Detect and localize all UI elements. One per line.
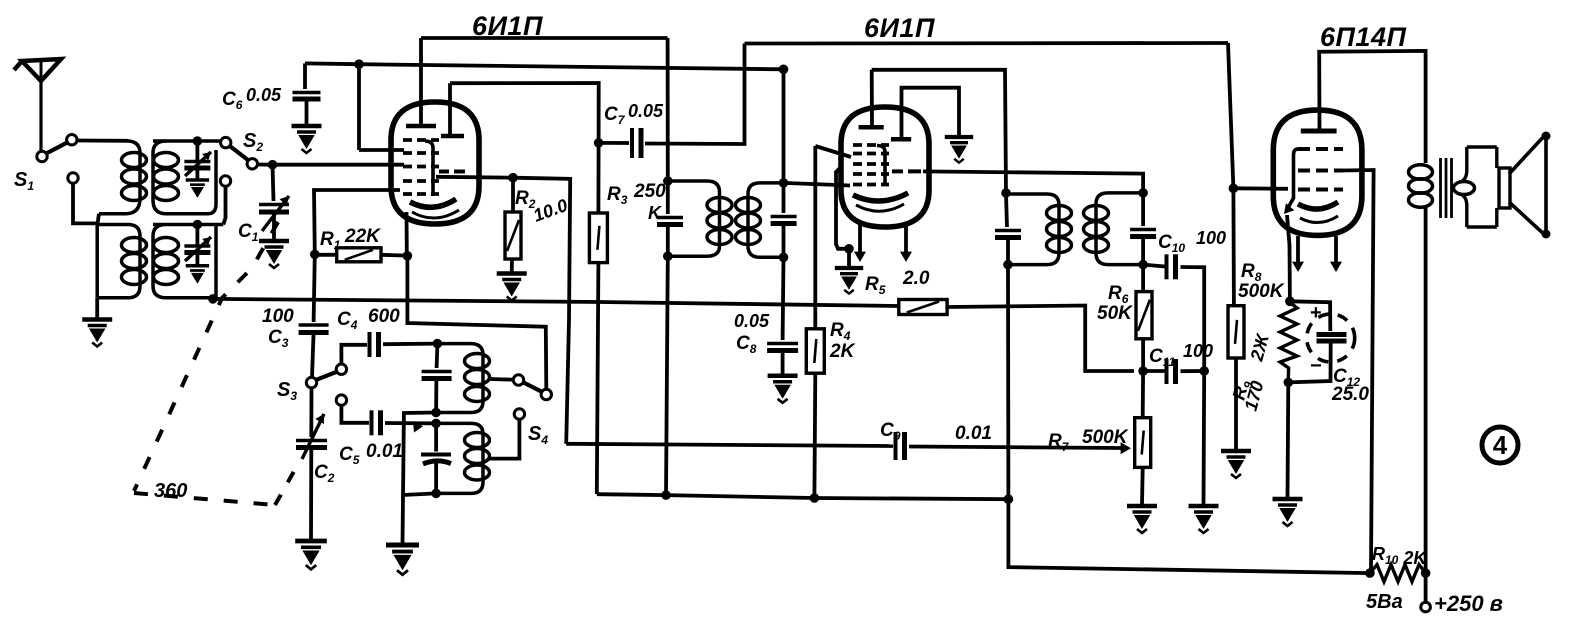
junction AVC bus end: [1004, 494, 1014, 504]
dashed gang to C2: [275, 466, 297, 505]
V1 cathode arc: [410, 199, 456, 207]
coil L3: [97, 223, 140, 297]
tap L5 to S4: [490, 377, 519, 382]
wire V2 triode plate to T3 secondary: [923, 171, 1143, 193]
wire rail to T2 secondary: [782, 69, 786, 183]
svg-text:6И1П: 6И1П: [864, 13, 935, 43]
svg-text:2.0: 2.0: [902, 268, 930, 289]
junction R6 bottom: [1138, 366, 1148, 376]
switch S3: [306, 377, 316, 387]
wire C10 to C11 column: [1181, 267, 1205, 369]
junction C11 right: [1199, 366, 1209, 376]
capacitor C5: [341, 405, 369, 423]
wire V2 plate to T3: [872, 70, 1006, 193]
capacitor C3: [299, 325, 329, 333]
dashed gang bottom: [134, 493, 275, 505]
capacitor T3 secondary: [1141, 193, 1145, 226]
resistor R2: [511, 178, 515, 212]
node A junction: [268, 160, 278, 170]
ground C10 C11: [1189, 506, 1219, 533]
wire osc bottom to ground column: [403, 493, 437, 495]
junction T2 primary bottom: [663, 251, 673, 261]
V3 heater leads: [1296, 236, 1300, 266]
V2 cathode lead and ground: [836, 166, 849, 249]
svg-text:600: 600: [368, 306, 400, 327]
V1 grid dashes: [403, 138, 439, 142]
capacitor C9: [896, 432, 905, 460]
wire L1 to L3: [97, 214, 99, 225]
tap L6 to S4: [490, 420, 520, 459]
wire R8 to V3 grid: [1233, 186, 1288, 190]
terminal B plus: [1421, 602, 1431, 612]
switch S4: [513, 375, 523, 385]
junction V3 cathode node: [1285, 297, 1295, 307]
capacitor C11: [1143, 369, 1165, 373]
junction T3 primary top: [1001, 188, 1011, 198]
wire rail to T2 primary: [666, 38, 670, 181]
junction R10 left: [1365, 568, 1375, 578]
svg-text:0.05: 0.05: [246, 85, 282, 105]
svg-text:K: K: [648, 203, 663, 223]
junction bus R4: [810, 493, 820, 503]
wire T2 to V2 diode: [784, 183, 851, 186]
svg-text:50K: 50K: [1097, 303, 1133, 324]
junction osc mid upper: [431, 408, 441, 418]
junction R1 left: [310, 250, 320, 260]
wire V1 to S4: [407, 256, 546, 389]
wire to B plus terminal: [1424, 573, 1428, 602]
wire AVC bus: [597, 494, 1009, 499]
junction T3 secondary top: [1138, 188, 1148, 198]
wire rail C7 to R8: [745, 41, 1229, 45]
junction R1 right: [403, 251, 413, 261]
capacitor T3 primary: [1006, 194, 1007, 227]
svg-text:25.0: 25.0: [1331, 384, 1369, 405]
terminal circle L4 to gang: [220, 176, 230, 186]
variable capacitor C1: [273, 165, 274, 201]
wire C11 to ground: [1202, 371, 1206, 505]
junction osc bottom: [431, 489, 441, 499]
junction L4 bottom: [208, 294, 218, 304]
ground R2: [497, 274, 527, 301]
junction bus T2: [661, 490, 671, 500]
resistor R6: [1141, 265, 1145, 292]
switch S2: [221, 137, 231, 147]
resistor R4: [813, 146, 817, 329]
switch S1: [37, 151, 47, 161]
antenna: [14, 59, 61, 152]
svg-text:100: 100: [1183, 341, 1213, 361]
dashed tuning gang line: [134, 222, 278, 491]
junction L2 top: [193, 136, 203, 146]
wire R4 to V2 grid: [815, 146, 851, 157]
junction R2 top: [508, 173, 518, 183]
electrolytic capacitor C12: [1290, 301, 1330, 331]
wire S1 to L1: [77, 139, 128, 143]
junction T2 secondary top: [779, 178, 789, 188]
wire V1 screen to C7: [450, 83, 599, 143]
ground R8: [1221, 451, 1251, 478]
resistor R1: [337, 248, 381, 262]
wire S1 to L3: [73, 184, 97, 224]
junction T2 secondary bottom: [779, 252, 789, 262]
V3 plate and lead: [1301, 129, 1337, 134]
V2 heater leads: [858, 222, 862, 256]
output transformer secondary and speaker frame: [1460, 147, 1497, 227]
V1 cathode lead down: [405, 212, 409, 253]
junction R9 bottom: [1284, 378, 1294, 388]
V2 screen lead to ground: [891, 137, 911, 142]
junction T2 primary top: [663, 176, 673, 186]
svg-text:360: 360: [154, 480, 187, 502]
capacitor C10: [1143, 265, 1165, 267]
svg-text:6П14П: 6П14П: [1320, 22, 1406, 52]
resistor R7: [1141, 371, 1145, 418]
junction R10 right: [1421, 568, 1431, 578]
svg-text:4: 4: [1493, 430, 1508, 460]
IF transformer T3 secondary: [1096, 193, 1143, 265]
svg-text:500K: 500K: [1238, 281, 1285, 302]
wire grid2 drop: [357, 64, 361, 150]
V2 inner grid lead: [877, 146, 885, 184]
capacitor T2 secondary: [782, 183, 786, 213]
ground C1: [259, 241, 289, 268]
V1 plate and leads: [406, 124, 436, 129]
variable capacitor C2: [309, 388, 313, 437]
wire T2 bottom to bus: [666, 256, 668, 495]
wire rail V1 plate: [421, 36, 668, 40]
capacitor osc tank upper: [435, 344, 440, 368]
svg-text:+: +: [1310, 302, 1322, 324]
wire rail down to R8: [1228, 43, 1234, 306]
coil L1: [99, 141, 140, 214]
wire S2 to node A: [258, 163, 273, 167]
svg-text:−: −: [1310, 355, 1322, 377]
coil L2: [153, 141, 216, 214]
wire coil assembly to R5: [213, 299, 899, 306]
svg-text:2K: 2K: [829, 341, 856, 362]
resistor R5: [899, 300, 947, 315]
svg-text:100: 100: [262, 306, 294, 327]
wire R5 to R6 node: [947, 306, 1134, 372]
vacuum tube V1 6I1P envelope: [391, 102, 479, 224]
svg-text:0.05: 0.05: [628, 101, 664, 121]
V3 cathode lead: [1284, 203, 1294, 214]
svg-text:500K: 500K: [1082, 427, 1129, 448]
V3 inner grid lead: [1289, 149, 1299, 207]
V1 inner grid lead: [425, 141, 433, 196]
capacitor T2 primary: [666, 181, 670, 214]
svg-text:0.01: 0.01: [955, 423, 992, 444]
wire node A to V1 grid: [273, 163, 405, 167]
ground C2: [295, 541, 327, 569]
ground V2 cathode: [835, 268, 863, 294]
V2 cathode arc: [853, 193, 908, 201]
svg-text:22K: 22K: [344, 226, 381, 247]
wire rail C6 to T2: [305, 63, 784, 69]
ground trimmer L4: [186, 266, 209, 282]
wire R1 to C3: [314, 254, 315, 322]
speaker: [1495, 147, 1498, 168]
vacuum tube V2 6I1P envelope: [841, 107, 929, 227]
ground R7: [1127, 506, 1157, 533]
junction L4 top: [193, 220, 203, 230]
vacuum tube V3 6P14P envelope: [1273, 110, 1362, 235]
junction R8 grid: [1229, 184, 1239, 194]
capacitor C7: [599, 141, 629, 145]
figure number 4: [1482, 427, 1518, 463]
trimmer capacitor in L2: [195, 141, 199, 160]
svg-text:100: 100: [1196, 228, 1226, 248]
ground oscillator: [386, 545, 419, 575]
ground coil assembly: [82, 320, 112, 347]
wire osc to ground: [403, 413, 437, 545]
ground C8: [768, 376, 798, 403]
wire primary to B plus: [1424, 207, 1428, 573]
trimmer capacitor in L4: [195, 225, 199, 246]
V3 screen lead: [1342, 170, 1374, 571]
V2 triode plate dashes: [892, 169, 921, 173]
output transformer core: [1439, 158, 1442, 218]
svg-text:6И1П: 6И1П: [472, 11, 543, 41]
junction T3 secondary bottom: [1138, 260, 1148, 270]
wire L3 to ground: [95, 298, 99, 320]
svg-text:+250 в: +250 в: [1434, 591, 1503, 616]
ground V2 screen: [945, 137, 973, 163]
V3 grid dashes: [1298, 147, 1343, 151]
svg-text:250: 250: [633, 181, 666, 202]
junction rail T2 right: [779, 65, 789, 75]
svg-text:5Ва: 5Ва: [1366, 591, 1403, 613]
V2 plate and leads: [859, 125, 884, 130]
capacitor C8: [781, 257, 786, 340]
junction osc C4: [433, 339, 443, 349]
junction rail grid2: [354, 59, 364, 69]
wire R1 to V1 cathode: [314, 190, 400, 254]
junction C7: [594, 138, 604, 148]
wire T3 bottom to B plus bus: [1008, 265, 1370, 573]
capacitor C4: [341, 345, 367, 364]
resistor R3: [597, 143, 601, 213]
wire AVC to C9: [566, 444, 893, 446]
junction T3 primary bottom: [1003, 260, 1013, 270]
wire V1 plate to AVC: [436, 177, 570, 444]
V2 grid dashes: [853, 143, 889, 147]
coil L4: [153, 225, 223, 298]
junction osc mid lower: [431, 419, 441, 429]
ground C6: [292, 126, 322, 153]
output transformer primary: [1409, 165, 1433, 207]
svg-text:0.05: 0.05: [734, 311, 770, 331]
capacitor C6: [303, 63, 307, 89]
capacitor osc tank lower: [434, 423, 438, 451]
ground trimmer L2: [186, 180, 209, 196]
ground R9: [1273, 499, 1303, 526]
V3 cathode arcs: [1298, 202, 1338, 209]
svg-text:0.01: 0.01: [366, 441, 403, 462]
IF transformer T2 secondary: [748, 183, 784, 257]
junction V2 cathode: [844, 244, 854, 254]
arrow into R7: [1121, 442, 1131, 454]
